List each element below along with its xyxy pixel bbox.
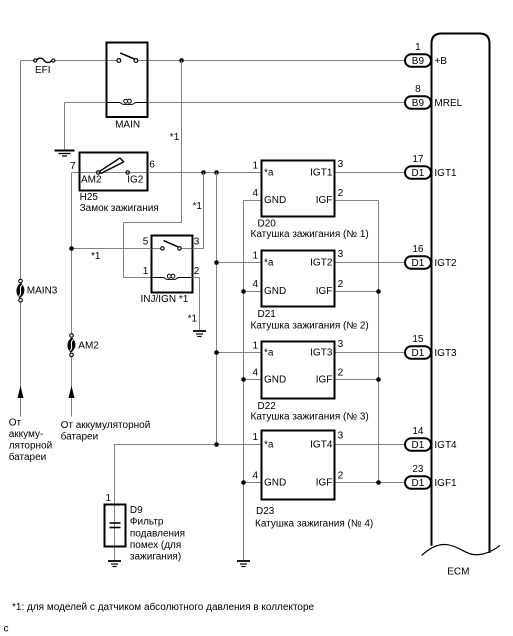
svg-text:D1: D1 bbox=[412, 168, 425, 179]
svg-text:2: 2 bbox=[338, 279, 344, 290]
connector pin IGF1 (D1-23) bbox=[405, 464, 457, 489]
svg-text:3: 3 bbox=[194, 236, 200, 247]
svg-text:D9: D9 bbox=[130, 505, 143, 516]
wire INJ/IGN pin5 to AM2 line bbox=[72, 248, 152, 250]
svg-text:INJ/IGN *1: INJ/IGN *1 bbox=[141, 294, 189, 305]
svg-text:IG2: IG2 bbox=[127, 175, 144, 186]
svg-text:1: 1 bbox=[143, 266, 149, 277]
svg-text:D23: D23 bbox=[256, 506, 275, 517]
wire IGT2 out bbox=[335, 262, 406, 264]
ground (INJ/IGN pin2) bbox=[193, 331, 206, 337]
svg-text:IGT2: IGT2 bbox=[434, 258, 457, 269]
svg-text:IGT2: IGT2 bbox=[310, 258, 333, 269]
svg-text:4: 4 bbox=[252, 188, 258, 199]
svg-text:IGT4: IGT4 bbox=[310, 440, 333, 451]
wire coil pin1 bus bbox=[216, 173, 218, 445]
svg-text:Фильтр: Фильтр bbox=[130, 517, 164, 528]
connector pin IGT4 (D1-14) bbox=[405, 426, 457, 451]
node junction bus/D22 pin1 bbox=[214, 350, 219, 355]
ignition coil D21 bbox=[262, 251, 335, 307]
svg-text:GND: GND bbox=[264, 286, 286, 297]
svg-text:IGF: IGF bbox=[316, 477, 333, 488]
svg-text:IGT3: IGT3 bbox=[434, 348, 457, 359]
connector pin IGT1 (D1-17) bbox=[405, 154, 457, 179]
svg-text:H25: H25 bbox=[80, 192, 99, 203]
svg-text:4: 4 bbox=[252, 279, 258, 290]
wire IGF bus bbox=[378, 201, 380, 483]
svg-text:*1: для моделей с датчиком абс: *1: для моделей с датчиком абсолютного д… bbox=[12, 601, 315, 613]
fuse MAIN3 (fusible link) bbox=[16, 279, 57, 302]
fuse AM2 (fusible link) bbox=[67, 334, 99, 357]
wire to D21 pin1 bbox=[217, 262, 262, 264]
node junction GND bus/D21 bbox=[241, 289, 246, 294]
svg-text:6: 6 bbox=[149, 159, 155, 170]
node junction GND bus/D23 bbox=[241, 480, 246, 485]
svg-text:От аккумуляторной: От аккумуляторной bbox=[61, 420, 151, 431]
svg-text:MAIN: MAIN bbox=[115, 120, 140, 131]
svg-text:IGF: IGF bbox=[316, 195, 333, 206]
wire top row from EFI to +B bbox=[21, 60, 406, 62]
fuse EFI bbox=[34, 58, 55, 76]
svg-text:D1: D1 bbox=[412, 348, 425, 359]
arrow from battery (left) bbox=[18, 386, 24, 398]
arrow from battery (right) bbox=[69, 386, 75, 398]
wire IGT1 out bbox=[335, 172, 406, 174]
svg-text:Катушка зажигания (№ 1): Катушка зажигания (№ 1) bbox=[251, 229, 369, 240]
svg-text:1: 1 bbox=[252, 161, 258, 172]
svg-text:16: 16 bbox=[412, 244, 424, 255]
wire D20 GND bbox=[244, 200, 262, 202]
svg-text:От: От bbox=[9, 417, 22, 428]
label От аккумуляторной батареи (left) bbox=[9, 417, 53, 463]
svg-text:1: 1 bbox=[105, 493, 111, 504]
ignition switch H25 bbox=[80, 153, 148, 191]
node junction IGF bus/D22 bbox=[376, 377, 381, 382]
wire GND bus bbox=[243, 201, 245, 561]
ignition coil D22 bbox=[262, 342, 335, 399]
svg-text:1: 1 bbox=[252, 341, 258, 352]
svg-text:*a: *a bbox=[264, 258, 274, 269]
svg-text:Катушка зажигания (№ 2): Катушка зажигания (№ 2) bbox=[251, 320, 369, 331]
svg-text:3: 3 bbox=[338, 339, 344, 350]
node junction IGF bus/IGF1 bbox=[376, 480, 381, 485]
svg-text:EFI: EFI bbox=[35, 65, 51, 76]
svg-text:D1: D1 bbox=[412, 478, 425, 489]
noise filter D9 bbox=[105, 505, 126, 547]
svg-text:IGT4: IGT4 bbox=[434, 440, 457, 451]
svg-text:3: 3 bbox=[338, 430, 344, 441]
connector pin IGT3 (D1-15) bbox=[405, 334, 457, 359]
svg-text:2: 2 bbox=[338, 368, 344, 379]
wire MREL row (MAIN coil to MREL pin) bbox=[149, 102, 406, 104]
node junction IG2/INJ-IGN pin3 bbox=[201, 170, 206, 175]
svg-text:*a: *a bbox=[264, 440, 274, 451]
node junction IGF bus/D21 bbox=[376, 289, 381, 294]
node junction bus/D21 pin1 bbox=[214, 260, 219, 265]
relay INJ/IGN bbox=[152, 236, 193, 293]
wire MAIN coil to ground bbox=[65, 103, 107, 150]
svg-text:IGF1: IGF1 bbox=[434, 478, 457, 489]
wire H25 pin7 to AM2 fuse and battery bbox=[72, 173, 80, 417]
wire D23 IGF to IGF1 pin bbox=[335, 482, 406, 484]
svg-text:3: 3 bbox=[338, 159, 344, 170]
svg-text:1: 1 bbox=[252, 251, 258, 262]
svg-text:MAIN3: MAIN3 bbox=[27, 285, 58, 296]
svg-text:*1: *1 bbox=[91, 251, 101, 262]
connector pin +B (B9-1) bbox=[405, 42, 447, 67]
svg-text:B9: B9 bbox=[412, 98, 425, 109]
svg-text:1: 1 bbox=[252, 432, 258, 443]
svg-text:GND: GND bbox=[264, 195, 286, 206]
svg-text:IGT1: IGT1 bbox=[310, 168, 333, 179]
svg-text:D20: D20 bbox=[258, 218, 277, 229]
svg-text:4: 4 bbox=[252, 470, 258, 481]
svg-text:IGT3: IGT3 bbox=[310, 348, 333, 359]
svg-text:2: 2 bbox=[194, 266, 200, 277]
svg-text:*a: *a bbox=[264, 168, 274, 179]
svg-text:4: 4 bbox=[252, 368, 258, 379]
connector pin MREL (B9-8) bbox=[405, 84, 463, 109]
svg-text:ECM: ECM bbox=[447, 567, 469, 578]
svg-text:14: 14 bbox=[412, 426, 424, 437]
wire to D22 pin1 bbox=[217, 352, 262, 354]
connector pin IGT2 (D1-16) bbox=[405, 244, 457, 269]
svg-text:15: 15 bbox=[412, 334, 424, 345]
wire D22 GND bbox=[244, 379, 262, 381]
svg-text:батареи: батареи bbox=[9, 451, 47, 463]
node junction IG2/coil bus bbox=[214, 170, 219, 175]
svg-text:D21: D21 bbox=[258, 309, 277, 320]
coil of relay MAIN bbox=[107, 99, 148, 104]
ground (coil GND bus) bbox=[237, 561, 250, 567]
svg-text:подавления: подавления bbox=[130, 528, 185, 539]
svg-text:IGT1: IGT1 bbox=[434, 168, 457, 179]
svg-text:23: 23 bbox=[412, 464, 424, 475]
svg-text:*1: *1 bbox=[188, 313, 198, 324]
wire IGT4 out bbox=[335, 444, 406, 446]
wire D20 IGF bbox=[335, 200, 379, 202]
ECM box bbox=[422, 34, 500, 578]
wire D22 IGF bbox=[335, 379, 379, 381]
svg-text:зажигания): зажигания) bbox=[130, 552, 181, 563]
svg-text:GND: GND bbox=[264, 375, 286, 386]
relay MAIN bbox=[107, 43, 148, 131]
label От аккумуляторной батареи (right) bbox=[61, 420, 151, 443]
svg-text:*1: *1 bbox=[170, 132, 180, 143]
wire IGT3 out bbox=[335, 352, 406, 354]
svg-text:аккуму-: аккуму- bbox=[9, 429, 44, 440]
svg-text:D22: D22 bbox=[258, 401, 277, 412]
ground (D9) bbox=[108, 561, 121, 567]
svg-text:IGF: IGF bbox=[316, 375, 333, 386]
coil of relay INJ/IGN bbox=[153, 274, 192, 279]
ignition coil D20 bbox=[262, 161, 335, 217]
wire D21 IGF bbox=[335, 291, 379, 293]
svg-text:с: с bbox=[4, 624, 9, 635]
node junction top (*1 tap) bbox=[179, 58, 184, 63]
ground (MAIN relay coil) bbox=[55, 151, 75, 157]
wire *1 branch to INJ/IGN pin 1 bbox=[124, 61, 182, 278]
node junction GND bus/D22 bbox=[241, 377, 246, 382]
svg-text:3: 3 bbox=[338, 249, 344, 260]
svg-text:17: 17 bbox=[412, 154, 424, 165]
svg-text:5: 5 bbox=[143, 236, 149, 247]
svg-text:2: 2 bbox=[338, 470, 344, 481]
ignition coil D23 bbox=[262, 431, 335, 500]
svg-text:помех (для: помех (для bbox=[130, 540, 181, 551]
svg-text:7: 7 bbox=[70, 161, 76, 172]
svg-text:D1: D1 bbox=[412, 440, 425, 451]
wire INJ/IGN pin3 to IG2 row bbox=[193, 173, 204, 249]
svg-text:GND: GND bbox=[264, 477, 286, 488]
svg-text:MREL: MREL bbox=[434, 98, 462, 109]
node junction pin5/AM2 bbox=[69, 246, 74, 251]
wire D23 GND bbox=[244, 482, 262, 484]
svg-text:Замок зажигания: Замок зажигания bbox=[80, 203, 159, 214]
wire to D23 pin1 and D9 bbox=[115, 445, 262, 561]
node junction bus/D23/D9 bbox=[214, 442, 219, 447]
label D9 Фильтр подавления помех bbox=[130, 505, 185, 563]
wire left vertical from EFI to battery bbox=[20, 61, 22, 417]
svg-text:Катушка зажигания (№ 4): Катушка зажигания (№ 4) bbox=[255, 518, 373, 529]
svg-text:AM2: AM2 bbox=[78, 341, 99, 352]
svg-text:+B: +B bbox=[434, 56, 447, 67]
svg-text:8: 8 bbox=[415, 84, 421, 95]
svg-text:2: 2 bbox=[338, 188, 344, 199]
svg-text:B9: B9 bbox=[412, 56, 425, 67]
wire D21 GND bbox=[244, 291, 262, 293]
svg-text:D1: D1 bbox=[412, 258, 425, 269]
wire IG2 row to D20 pin1 bbox=[148, 172, 262, 174]
svg-text:*a: *a bbox=[264, 348, 274, 359]
svg-text:Катушка зажигания (№ 3): Катушка зажигания (№ 3) bbox=[251, 411, 369, 422]
svg-text:батареи: батареи bbox=[61, 431, 99, 443]
svg-text:*1: *1 bbox=[193, 201, 203, 212]
svg-text:1: 1 bbox=[415, 42, 421, 53]
svg-text:IGF: IGF bbox=[316, 286, 333, 297]
svg-text:AM2: AM2 bbox=[81, 175, 102, 186]
svg-text:ляторной: ляторной bbox=[9, 440, 53, 451]
wire INJ/IGN pin2 to ground bbox=[193, 278, 200, 331]
